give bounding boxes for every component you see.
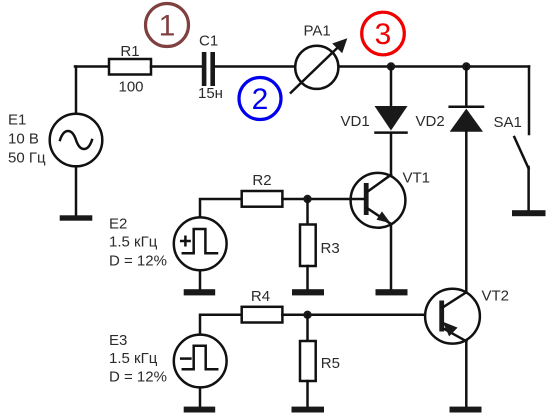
wire junction to R5 [306, 315, 309, 341]
label R3 [321, 240, 340, 257]
diode VD1 [375, 67, 408, 176]
node 1 [146, 4, 189, 47]
svg-text:10 В: 10 В [8, 131, 39, 148]
transistor VT1 [351, 173, 406, 228]
ground R5 [292, 407, 325, 413]
value 15н [198, 85, 223, 102]
wire E2 to R2 [200, 199, 242, 217]
ground VT1 [376, 289, 408, 295]
wire R4 to VT2 base [282, 314, 439, 317]
svg-text:SA1: SA1 [494, 114, 522, 131]
label PA1 [304, 23, 331, 40]
wire C1 to PA1 [215, 65, 295, 68]
svg-text:VT2: VT2 [482, 288, 510, 305]
wire VT2 emitter lead [465, 341, 468, 407]
junction R2 R3 [303, 195, 311, 203]
node 3 [362, 12, 405, 55]
svg-text:1: 1 [159, 10, 176, 43]
resistor R5 [300, 341, 316, 381]
source E1 [50, 114, 103, 167]
wire PA1 to SA1 corner [339, 65, 529, 68]
source E3 [174, 335, 227, 388]
ground E2 [184, 289, 216, 295]
junction VD2 top [462, 62, 470, 70]
wire R3 bottom lead [306, 266, 309, 290]
value 100 [118, 79, 143, 96]
label E3 1.5 кГц D = 12% [109, 332, 167, 386]
source E2 [174, 217, 227, 270]
label VD1 [341, 113, 370, 130]
wire E2 bottom lead [199, 271, 202, 290]
wire junction to R3 [306, 199, 309, 225]
junction R4 R5 [303, 311, 311, 319]
wire R2 to VT1 base [282, 198, 364, 201]
svg-text:15н: 15н [198, 85, 223, 102]
svg-text:R3: R3 [321, 240, 340, 257]
label R5 [321, 355, 340, 372]
label E2 1.5 кГц D = 12% [109, 216, 167, 270]
svg-text:R5: R5 [321, 355, 340, 372]
svg-text:R4: R4 [251, 288, 270, 305]
resistor R1 [109, 59, 151, 75]
ground R3 [292, 289, 324, 295]
label C1 [199, 33, 218, 50]
svg-text:R2: R2 [252, 172, 271, 189]
ground SA1 [512, 210, 546, 216]
svg-text:3: 3 [375, 18, 392, 51]
capacitor C1 [202, 52, 215, 86]
label VD2 [416, 113, 445, 130]
svg-text:1.5 кГц: 1.5 кГц [109, 350, 158, 367]
ground VT2 [450, 407, 482, 413]
label R2 [252, 172, 271, 189]
svg-text:2: 2 [252, 83, 269, 116]
ground E3 [184, 407, 216, 413]
svg-text:50 Гц: 50 Гц [8, 150, 46, 167]
ammeter PA1 [291, 38, 347, 92]
svg-text:VD1: VD1 [341, 113, 370, 130]
node 2 [239, 78, 281, 120]
wire VT1 emitter lead [390, 224, 393, 290]
wire E1 bottom lead [75, 167, 78, 216]
svg-text:E3: E3 [109, 332, 127, 349]
label SA1 [494, 114, 522, 131]
wire E1 to R1 [75, 65, 109, 68]
svg-text:100: 100 [118, 79, 143, 96]
label VT2 [482, 288, 510, 305]
label R1 [120, 43, 139, 60]
switch SA1 [514, 67, 529, 211]
resistor R2 [242, 191, 283, 207]
svg-text:VT1: VT1 [403, 170, 431, 187]
wire R5 bottom lead [306, 381, 309, 407]
svg-text:D = 12%: D = 12% [109, 369, 167, 386]
svg-text:1.5 кГц: 1.5 кГц [109, 234, 158, 251]
svg-text:VD2: VD2 [416, 113, 445, 130]
label E1 10 В 50 Гц [8, 112, 46, 167]
junction VD1 top [387, 62, 395, 70]
wire top net: E1 top lead [75, 67, 78, 114]
resistor R4 [242, 307, 283, 323]
diode VD2 [450, 67, 483, 292]
svg-text:E2: E2 [109, 216, 127, 233]
ground E1 [60, 215, 93, 220]
svg-text:PA1: PA1 [304, 23, 331, 40]
svg-text:C1: C1 [199, 33, 218, 50]
label VT1 [403, 170, 431, 187]
svg-text:E1: E1 [8, 112, 26, 129]
transistor VT2 [425, 289, 480, 344]
wire E3 to R4 [200, 315, 242, 334]
label R4 [251, 288, 270, 305]
svg-text:R1: R1 [120, 43, 139, 60]
wire R1 to C1 [151, 65, 202, 68]
svg-text:D = 12%: D = 12% [109, 252, 167, 269]
resistor R3 [300, 225, 316, 267]
wire E3 bottom lead [199, 388, 202, 407]
